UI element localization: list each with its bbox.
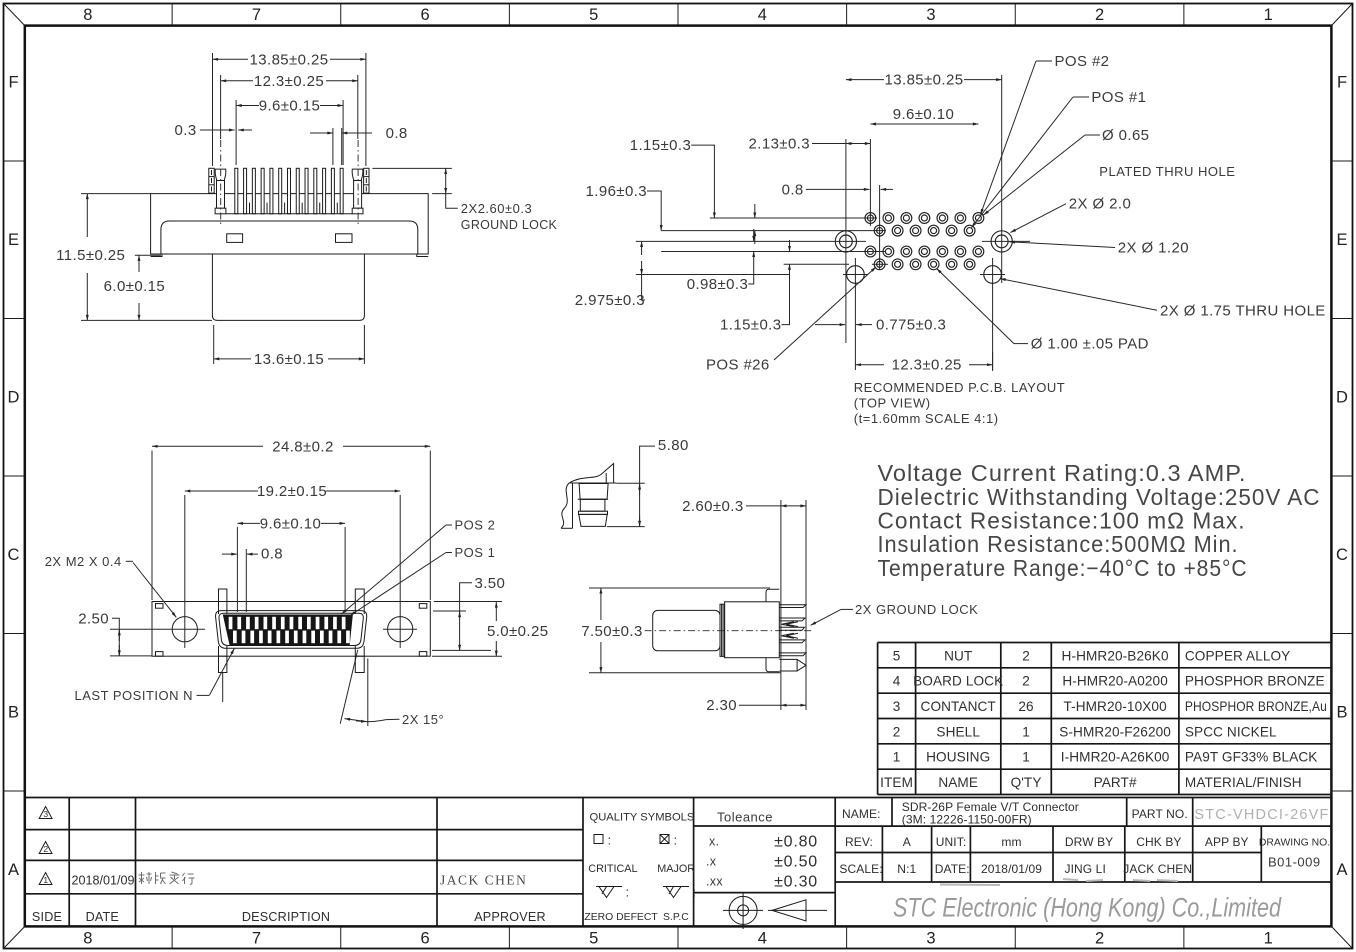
view1 left ground lock post: [215, 169, 226, 180]
view5 ground lock chevron lower: [782, 633, 794, 638]
svg-text:H-HMR20-B26K0: H-HMR20-B26K0: [1062, 648, 1169, 663]
view5 extension verticals 2.60/2.30: [780, 500, 782, 710]
corner diagonal bottom-right: [1331, 926, 1352, 948]
view1 latch window right: [336, 234, 353, 243]
svg-text:2.50: 2.50: [78, 610, 109, 627]
svg-text:SPCC NICKEL: SPCC NICKEL: [1185, 724, 1277, 739]
svg-text:2.30: 2.30: [706, 697, 737, 714]
svg-text:ZERO DEFECT: ZERO DEFECT: [584, 912, 658, 923]
svg-text:13.85±0.25: 13.85±0.25: [885, 72, 964, 89]
svg-text:NAME: NAME: [938, 775, 978, 790]
pcb thru hole left 1.75: [847, 266, 865, 284]
view1 left ground lock centerline: [220, 140, 222, 225]
svg-text:2X Ø 2.0: 2X Ø 2.0: [1069, 196, 1131, 213]
view1 fin base plate line: [225, 213, 353, 215]
pcb extension line row1: [710, 217, 877, 219]
pcb crosshair left mount hole: [826, 240, 866, 242]
svg-text:1.96±0.3: 1.96±0.3: [586, 183, 647, 200]
svg-text:5: 5: [893, 648, 901, 663]
view5 top tab: [766, 589, 779, 602]
pcb extension line thru-hole row: [636, 274, 790, 276]
svg-text:7: 7: [252, 930, 261, 948]
svg-text:JACK CHEN: JACK CHEN: [440, 872, 527, 887]
svg-text:NAME:: NAME:: [842, 807, 881, 821]
pcb vertical centerline right thru hole: [992, 258, 994, 371]
svg-text:1.15±0.3: 1.15±0.3: [630, 137, 691, 154]
svg-text:0.775±0.3: 0.775±0.3: [876, 317, 946, 334]
dim 9.6 +-0.15: [235, 100, 237, 165]
revision triangle 3: [39, 807, 52, 819]
svg-text:PART#: PART#: [1094, 775, 1137, 790]
svg-text:POS #2: POS #2: [1055, 53, 1110, 70]
svg-text:4: 4: [758, 6, 767, 24]
dim 24.8 +-0.2: [151, 451, 153, 601]
svg-text::: :: [608, 833, 612, 848]
svg-text:Q'TY: Q'TY: [1011, 775, 1042, 790]
svg-text:(TOP VIEW): (TOP VIEW): [854, 395, 931, 410]
pcb pad holes row3 x7: [865, 246, 876, 257]
zone row ticks: [4, 160, 25, 162]
svg-text:6: 6: [420, 6, 429, 24]
dim pcb 13.85 +-0.25: [846, 79, 884, 81]
pcb vertical centerline right mount hole: [1001, 75, 1003, 283]
svg-text:S.P.C: S.P.C: [663, 912, 689, 923]
view3 board lock tab bottom-left: [219, 656, 227, 672]
svg-text:C: C: [1336, 546, 1348, 564]
svg-text:PART NO.: PART NO.: [1132, 807, 1188, 821]
svg-text:LAST POSITION N: LAST POSITION N: [75, 688, 194, 703]
svg-text:2: 2: [1095, 6, 1104, 24]
view1 right ground lock post: [352, 169, 363, 180]
pcb vertical centerline left thru hole: [854, 258, 856, 352]
svg-text:2018/01/09: 2018/01/09: [981, 862, 1042, 876]
svg-text:JING LI: JING LI: [1065, 862, 1106, 876]
svg-text:mm: mm: [1001, 835, 1021, 849]
svg-text:B: B: [8, 704, 19, 722]
dim 13.6 +-0.15 bottom: [213, 325, 215, 364]
svg-text:A: A: [8, 861, 19, 879]
svg-text:0.3: 0.3: [175, 122, 197, 139]
corner diagonal top-left: [4, 4, 25, 26]
svg-text:2: 2: [1095, 930, 1104, 948]
svg-text:NUT: NUT: [944, 648, 972, 663]
svg-text:Ø 1.00 ±.05 PAD: Ø 1.00 ±.05 PAD: [1031, 336, 1149, 353]
view5 flange ring: [720, 604, 725, 656]
svg-text:±0.80: ±0.80: [774, 834, 818, 851]
view5 ground lock chevron upper: [782, 622, 794, 627]
svg-text:PHOSPHOR BRONZE,Au: PHOSPHOR BRONZE,Au: [1185, 699, 1327, 714]
svg-text:1: 1: [1022, 750, 1030, 765]
svg-text:(3M: 12226-1150-00FR): (3M: 12226-1150-00FR): [902, 812, 1032, 826]
zone column ticks: [171, 4, 173, 26]
svg-text:24.8±0.2: 24.8±0.2: [272, 438, 333, 455]
svg-text:Ø 0.65: Ø 0.65: [1102, 127, 1149, 144]
svg-text:QUALITY SYMBOLS: QUALITY SYMBOLS: [590, 811, 695, 823]
dim 7.50 +-0.3: [600, 588, 602, 620]
svg-text:DATE: DATE: [86, 910, 119, 924]
svg-text:2.13±0.3: 2.13±0.3: [749, 136, 810, 153]
svg-text::: :: [674, 833, 678, 848]
svg-text:CHK BY: CHK BY: [1136, 835, 1181, 849]
quality symbol minor square: [594, 835, 603, 844]
pcb crosshair right mount hole: [982, 240, 1030, 242]
svg-text:7: 7: [252, 6, 261, 24]
pcb crosshair right thru hole: [980, 274, 1005, 276]
svg-text:1: 1: [1264, 930, 1273, 948]
svg-text:S-HMR20-F26200: S-HMR20-F26200: [1059, 724, 1171, 739]
svg-text:POS #1: POS #1: [1091, 89, 1146, 106]
dim pcb 0.775 +-0.3: [815, 324, 845, 326]
view4 post segment 1: [579, 484, 608, 500]
svg-text:ITEM: ITEM: [880, 775, 913, 790]
title block left section verticals: [68, 798, 70, 927]
svg-text:.xx: .xx: [706, 875, 723, 889]
svg-text:2X M2 X 0.4: 2X M2 X 0.4: [45, 554, 122, 569]
svg-text:9.6±0.10: 9.6±0.10: [260, 515, 321, 532]
svg-text:Temperature Range:−40°C to +85: Temperature Range:−40°C to +85°C: [878, 555, 1248, 581]
svg-text:(t=1.60mm SCALE 4:1): (t=1.60mm SCALE 4:1): [854, 411, 999, 426]
svg-text:E: E: [1336, 231, 1347, 249]
svg-text:26: 26: [1018, 699, 1033, 714]
svg-text:1.15±0.3: 1.15±0.3: [720, 317, 781, 334]
view3 board lock tab top-right: [355, 589, 364, 602]
svg-text::: :: [626, 885, 630, 900]
svg-text:3: 3: [926, 6, 935, 24]
view5 middle pin: [779, 627, 804, 630]
svg-text:Voltage Current Rating:0.3 AMP: Voltage Current Rating:0.3 AMP.: [878, 460, 1247, 486]
view3 tab hidden lines: [218, 602, 220, 615]
svg-text:MAJOR: MAJOR: [657, 863, 695, 875]
quality flag symbol zero defect: [596, 886, 622, 888]
tolerance datum target symbol: [729, 896, 757, 924]
svg-text:2X2.60±0.3: 2X2.60±0.3: [461, 201, 532, 216]
svg-text:2018/01/09: 2018/01/09: [72, 873, 135, 887]
dim pcb 9.6 +-0.10: [870, 123, 978, 125]
view3 corner notch TL: [156, 604, 164, 609]
view5 bottom pencil pin: [779, 659, 806, 671]
svg-text:12.3±0.25: 12.3±0.25: [254, 73, 324, 90]
svg-text:1: 1: [1264, 6, 1273, 24]
svg-text:x.: x.: [709, 835, 719, 849]
corner diagonal bottom-left: [4, 926, 25, 948]
svg-text:SIDE: SIDE: [32, 910, 62, 924]
svg-text:N:1: N:1: [897, 862, 916, 876]
svg-text:13.6±0.15: 13.6±0.15: [254, 351, 324, 368]
view5 extension top: [589, 587, 770, 589]
svg-text:T-HMR20-10X00: T-HMR20-10X00: [1063, 699, 1167, 714]
dim 12.3 +-0.25: [220, 75, 222, 139]
view4 post foot trapezoid: [579, 514, 607, 526]
view4 flag swoosh: [570, 464, 614, 484]
svg-text:6: 6: [420, 930, 429, 948]
view3 contact slots top row: [229, 617, 233, 629]
svg-text:2.60±0.3: 2.60±0.3: [682, 498, 743, 515]
svg-text:7.50±0.3: 7.50±0.3: [581, 623, 642, 640]
svg-text:±0.30: ±0.30: [774, 874, 818, 891]
svg-text:12.3±0.25: 12.3±0.25: [892, 357, 962, 374]
view4 post segment 2: [580, 499, 605, 511]
view3 corner notch BL: [156, 652, 164, 657]
svg-text:COPPER ALLOY: COPPER ALLOY: [1185, 648, 1290, 663]
corner diagonal top-right: [1331, 4, 1352, 26]
svg-text:CRITICAL: CRITICAL: [588, 863, 637, 875]
svg-text:REV:: REV:: [845, 835, 873, 849]
svg-text:F: F: [1337, 74, 1347, 92]
pcb mount hole left 2.0: [835, 231, 856, 252]
svg-text:GROUND LOCK: GROUND LOCK: [461, 218, 558, 232]
svg-text:Insulation Resistance:500MΩ Mi: Insulation Resistance:500MΩ Min.: [878, 531, 1239, 557]
svg-text:2: 2: [1022, 648, 1030, 663]
svg-text:DESCRIPTION: DESCRIPTION: [242, 910, 330, 924]
svg-text:DRAWING NO.: DRAWING NO.: [1259, 837, 1330, 848]
dim 9.6 +-0.10 front: [236, 527, 238, 612]
pcb vertical extension pos1 col: [869, 139, 871, 226]
view3 M2 nut circle right: [388, 617, 413, 642]
pcb thru hole right 1.75: [984, 266, 1002, 284]
svg-text:13.85±0.25: 13.85±0.25: [250, 51, 329, 68]
svg-text:B01-009: B01-009: [1268, 855, 1321, 870]
svg-text:9.6±0.10: 9.6±0.10: [893, 106, 954, 123]
svg-text:C: C: [8, 546, 20, 564]
svg-text:1: 1: [43, 875, 48, 885]
view1 right ground lock centerline: [357, 140, 359, 225]
svg-text:RECOMMENDED P.C.B. LAYOUT: RECOMMENDED P.C.B. LAYOUT: [854, 380, 1065, 395]
pcb pad holes row4 x6: [874, 259, 885, 270]
svg-text:3: 3: [43, 809, 48, 819]
svg-text:2X Ø 1.20: 2X Ø 1.20: [1118, 240, 1189, 257]
svg-text:2X 15°: 2X 15°: [402, 712, 444, 727]
svg-text:H-HMR20-A0200: H-HMR20-A0200: [1062, 674, 1168, 689]
svg-text:CONTANCT: CONTANCT: [921, 699, 996, 714]
view3 D-shell outer: [216, 611, 367, 649]
quality flag symbol spc: [663, 886, 689, 888]
svg-text:F: F: [8, 74, 18, 92]
view5 centerline: [645, 630, 814, 632]
svg-text:MATERIAL/FINISH: MATERIAL/FINISH: [1185, 775, 1302, 790]
pcb mount hole right 2.0: [991, 231, 1012, 252]
view5 main block: [725, 602, 780, 658]
title block outer top line: [25, 797, 1332, 799]
pcb vertical extension pos2 col: [879, 185, 881, 270]
dim 6.0 +-0.15: [135, 254, 161, 256]
svg-text:A: A: [1336, 861, 1347, 879]
pcb pad holes row1 x7: [865, 213, 876, 224]
svg-text:PHOSPHOR BRONZE: PHOSPHOR BRONZE: [1185, 674, 1325, 689]
BOM table grid: [878, 642, 1332, 644]
svg-text:9.6±0.15: 9.6±0.15: [259, 98, 320, 115]
view1 connector side elevation - flange shell outline: [151, 194, 429, 254]
svg-text:UNIT:: UNIT:: [936, 835, 967, 849]
svg-text:SCALE:: SCALE:: [839, 862, 882, 876]
svg-text:DATE:: DATE:: [935, 862, 970, 876]
svg-text:STC-VHDCI-26VF: STC-VHDCI-26VF: [1194, 807, 1329, 823]
svg-text:D: D: [1336, 389, 1348, 407]
view1 inner shell rounded top: [161, 221, 418, 254]
svg-text:2: 2: [1022, 674, 1030, 689]
svg-text:B: B: [1336, 704, 1347, 722]
view4 break line torn edge: [561, 483, 570, 529]
svg-text:APP BY: APP BY: [1205, 835, 1249, 849]
svg-text:0.98±0.3: 0.98±0.3: [687, 276, 748, 293]
view5 extension bottom: [589, 672, 781, 674]
svg-text:8: 8: [83, 6, 92, 24]
view3 corner notch BR: [419, 652, 427, 657]
svg-text:5.80: 5.80: [658, 437, 689, 454]
view5 pin 4: [779, 653, 806, 656]
svg-text:SHELL: SHELL: [936, 724, 980, 739]
view5 pin 1: [779, 605, 806, 608]
pcb extension line row3: [661, 251, 886, 253]
svg-text:POS #26: POS #26: [706, 357, 770, 374]
revision triangle 2: [39, 842, 52, 854]
svg-text:POS 1: POS 1: [455, 545, 496, 560]
svg-text:2X GROUND LOCK: 2X GROUND LOCK: [855, 602, 978, 617]
svg-text:2.975±0.3: 2.975±0.3: [575, 292, 645, 309]
svg-text:3: 3: [893, 699, 901, 714]
svg-text:19.2±0.15: 19.2±0.15: [257, 483, 327, 500]
svg-text:5.0±0.25: 5.0±0.25: [487, 623, 548, 640]
svg-text:0.8: 0.8: [386, 125, 408, 142]
svg-text:A: A: [903, 835, 911, 849]
title block row3 chinese note xin ban fa xing: [139, 872, 195, 884]
pcb crosshair left thru hole: [843, 274, 868, 276]
svg-text:4: 4: [758, 930, 767, 948]
view5 pin 3: [779, 640, 805, 643]
pcb vertical centerline left mount hole: [845, 139, 847, 343]
svg-text:BOARD LOCK: BOARD LOCK: [913, 674, 1003, 689]
svg-text:PLATED THRU HOLE: PLATED THRU HOLE: [1099, 164, 1235, 179]
svg-text:6.0±0.15: 6.0±0.15: [104, 278, 165, 295]
view1 contact tails: [248, 203, 250, 214]
view1 right ground lock square stack: [364, 168, 369, 193]
view3 M2 nut circle left: [172, 617, 197, 642]
view3 board lock tab bottom-right: [355, 656, 364, 672]
signature ghost marks: [940, 879, 1178, 885]
svg-text:2X Ø 1.75 THRU HOLE: 2X Ø 1.75 THRU HOLE: [1160, 302, 1326, 319]
dim 11.5 +-0.25 height: [81, 193, 150, 195]
svg-text:11.5±0.25: 11.5±0.25: [56, 247, 125, 264]
quality symbol major square crossed: [660, 835, 669, 844]
view1 flange bottom feet: [151, 254, 162, 257]
title block left section rows: [25, 829, 583, 831]
svg-text:4: 4: [893, 674, 901, 689]
svg-text:2: 2: [43, 844, 48, 854]
svg-text:APPROVER: APPROVER: [474, 910, 546, 924]
tolerance cone symbol: [772, 900, 806, 921]
view4 left vertical: [572, 483, 574, 528]
pcb pad holes row2 x6: [874, 225, 885, 236]
svg-text:POS 2: POS 2: [455, 518, 496, 533]
svg-text:Toleance: Toleance: [717, 809, 773, 824]
svg-text:PA9T GF33% BLACK: PA9T GF33% BLACK: [1185, 750, 1318, 765]
pcb extension line row4: [784, 263, 849, 265]
title name row verticals: [891, 798, 893, 827]
view3 corner notch TR: [419, 604, 427, 609]
view1 left ground lock square stack: [209, 168, 214, 193]
pcb extension line centerline: [636, 240, 827, 242]
title grid row2 row3: [835, 825, 1331, 827]
svg-text:HOUSING: HOUSING: [926, 750, 990, 765]
svg-text:3: 3: [926, 930, 935, 948]
svg-text:.x: .x: [706, 855, 717, 869]
svg-text:Contact Resistance:100 mΩ Max.: Contact Resistance:100 mΩ Max.: [878, 508, 1246, 534]
svg-text:5: 5: [589, 930, 598, 948]
svg-text:8: 8: [83, 930, 92, 948]
svg-text:STC Electronic (Hong Kong) Co.: STC Electronic (Hong Kong) Co.,Limited: [893, 893, 1282, 923]
svg-text:D: D: [8, 389, 20, 407]
dim 13.85 +-0.25 top: [212, 53, 214, 166]
svg-text:1: 1: [893, 750, 901, 765]
view3 tab centerline below: [222, 673, 224, 703]
view1 latch window left: [227, 234, 243, 243]
view3 contact insert band: [223, 615, 352, 645]
dim pcb 12.3 +-0.25: [854, 352, 856, 370]
view5 pin 2: [779, 618, 805, 621]
pcb extension line row2: [661, 230, 886, 232]
pcb crosshair row4 first hole: [872, 263, 888, 265]
view3 D-shell inner: [219, 613, 363, 645]
view5 barrel: [653, 610, 720, 650]
svg-text:2: 2: [893, 724, 901, 739]
svg-text:±0.50: ±0.50: [774, 854, 818, 871]
revision triangle 1: [39, 873, 52, 885]
view5 bottom tab: [766, 658, 779, 672]
dim 0.8 front: [245, 549, 247, 612]
svg-text:1: 1: [1022, 724, 1030, 739]
view4 post collar: [579, 511, 608, 514]
svg-text:3.50: 3.50: [475, 575, 506, 592]
view3 contact slots bottom row: [233, 631, 237, 644]
svg-text:JACK CHEN: JACK CHEN: [1123, 862, 1192, 876]
svg-text:E: E: [8, 231, 19, 249]
svg-text:5: 5: [589, 6, 598, 24]
view3 front body outline: [152, 602, 430, 657]
view3 circle crosshairs: [110, 628, 205, 630]
svg-text:0.8: 0.8: [782, 181, 804, 198]
svg-text:I-HMR20-A26K00: I-HMR20-A26K00: [1061, 750, 1170, 765]
dim 2X2.60 +-0.3 ground lock: [372, 167, 451, 169]
svg-text:0.8: 0.8: [261, 546, 283, 563]
view3 board lock tab top-left: [219, 589, 227, 602]
view4 bottom torn edge: [561, 527, 573, 529]
dim 2X 15 deg angle: [367, 659, 369, 727]
dim 5.0 +-0.25: [434, 601, 502, 603]
view1 lower body: [212, 254, 364, 320]
dim 19.2 +-0.15: [184, 495, 186, 611]
view1 contact fins x13: [235, 168, 238, 214]
view4 base line: [570, 482, 617, 484]
svg-text:Dielectric Withstanding Voltag: Dielectric Withstanding Voltage:250V AC: [878, 484, 1321, 510]
svg-text:DRW BY: DRW BY: [1065, 835, 1113, 849]
